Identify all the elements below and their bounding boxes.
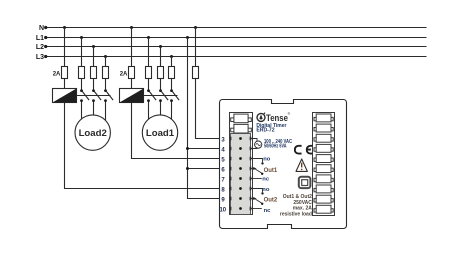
junction N / fuse9 drop <box>194 26 197 29</box>
wire N drop to fuse F1 <box>64 28 66 67</box>
wire fuse F6 to contact <box>148 79 150 90</box>
node L1 terminal dot <box>44 36 47 39</box>
wire fuse F7 to contact <box>160 79 162 90</box>
fuse F4 <box>103 67 109 79</box>
svg-text:no: no <box>263 157 271 163</box>
fuse F5 <box>129 67 135 79</box>
wire coil K2 to pin 5 <box>132 103 220 159</box>
wire L1 net vertical to pin 9 <box>188 38 220 199</box>
svg-text:Out2: Out2 <box>264 197 278 203</box>
double insulation symbol <box>299 177 311 188</box>
wire fuse F3 to contact <box>93 79 95 90</box>
warning triangle <box>296 159 307 171</box>
wire L1 net to pin 4 <box>188 148 220 150</box>
right comb tooth 3 <box>314 138 333 141</box>
strip side tabs pin6 <box>230 167 232 171</box>
strip side tabs pin10 <box>230 207 232 211</box>
junction pin6 net <box>186 167 189 170</box>
right comb tooth 6 <box>314 168 333 171</box>
wire N drop to fuse F9 <box>195 28 197 67</box>
svg-text:50/60Hz 6VA: 50/60Hz 6VA <box>264 144 287 150</box>
wire fuse F2 to contact <box>81 79 83 90</box>
right comb tooth 4 <box>314 148 333 151</box>
wire fuse F1 to coil K1 <box>64 79 66 89</box>
wire fuse F4 to contact <box>105 79 107 90</box>
right comb tooth 5 <box>314 158 333 161</box>
wire rail L1 <box>45 37 427 39</box>
screw terminal pin 5 <box>239 157 242 160</box>
strip side tabs pin5 <box>230 157 232 161</box>
wire L1 net to pin 6 <box>188 168 220 170</box>
strip side tabs pin4 <box>230 147 232 151</box>
junction L3 / contact drop group2 <box>170 55 173 58</box>
wire fuse F5 to coil K2 <box>131 79 133 89</box>
contactor coil K1 <box>53 89 77 103</box>
svg-text:N: N <box>39 25 44 32</box>
relay Out2 no contact <box>251 189 264 195</box>
fuse F3 <box>91 67 97 79</box>
wire coil K1 to pin 8 <box>65 103 220 189</box>
wire fuse F9 to pin 3 <box>196 79 220 139</box>
junction L2 / contact drop group2 <box>159 45 162 48</box>
svg-text:L3: L3 <box>36 54 44 61</box>
screw terminal pin 4 <box>239 147 242 150</box>
screw terminal pin 7 <box>239 177 242 180</box>
contact K1 pole 2 <box>92 89 101 115</box>
terminal strip body <box>231 134 251 215</box>
relay Out1 common arm <box>251 167 264 175</box>
fuse F2 <box>79 67 85 79</box>
right comb tooth 9 <box>314 199 333 202</box>
wire fuse F8 to contact <box>171 79 173 90</box>
junction L1 / contact drop group2 <box>147 36 150 39</box>
left comb tooth 1 <box>231 114 252 123</box>
strip side tabs pin7 <box>230 177 232 181</box>
fuse F7 <box>158 67 164 79</box>
junction pin4 net <box>186 147 189 150</box>
svg-text:Tense: Tense <box>266 113 288 123</box>
load M1 (Load1) <box>142 115 177 150</box>
right terminal comb frame <box>313 113 335 216</box>
contact K2 pole 1 <box>147 89 156 119</box>
wire L1 drop to fuse F2 <box>81 38 83 67</box>
relay Out1 no contact <box>251 159 264 165</box>
junction L1 / contact drop group1 <box>80 36 83 39</box>
svg-text:Out1: Out1 <box>264 168 278 174</box>
right comb tooth 10 <box>314 209 333 212</box>
right comb tooth 1 <box>314 117 333 120</box>
screw terminal pin 6 <box>239 167 242 170</box>
wire rail L2 <box>45 46 427 48</box>
wire L2 drop to fuse F7 <box>160 47 162 67</box>
AC supply symbol <box>255 141 262 148</box>
strip side tabs pin9 <box>230 197 232 201</box>
relay Out1 nc stub <box>251 178 262 180</box>
wire rail N <box>45 27 427 29</box>
junction L3 / contact drop group1 <box>104 55 107 58</box>
svg-text:nc: nc <box>262 176 270 182</box>
relay Out2 common arm <box>251 197 264 205</box>
contactor coil K2 <box>120 89 144 103</box>
fuse F8 <box>169 67 175 79</box>
wire L3 drop to fuse F8 <box>171 57 173 67</box>
strip side tabs pin8 <box>230 187 232 191</box>
svg-text:ERD-72: ERD-72 <box>256 128 274 134</box>
screw terminal pin 3 <box>239 137 242 140</box>
contact K1 pole 1 <box>80 89 89 119</box>
contact K2 pole 3 <box>170 89 179 121</box>
node L2 terminal dot <box>44 45 47 48</box>
node L3 terminal dot <box>44 55 47 58</box>
junction N / coil2 drop <box>130 26 133 29</box>
svg-text:2A: 2A <box>120 72 128 78</box>
screw terminal pin 8 <box>239 187 242 190</box>
wire L3 drop to fuse F4 <box>105 57 107 67</box>
fuse F6 <box>146 67 152 79</box>
fuse F1 <box>62 67 68 79</box>
CE mark <box>295 146 313 154</box>
screw terminal pin 9 <box>239 197 242 200</box>
wire L2 drop to fuse F3 <box>93 47 95 67</box>
contactor K2 mechanical link <box>144 95 178 97</box>
right comb tooth 7 <box>314 178 333 181</box>
svg-text:Load1: Load1 <box>146 128 175 139</box>
contactor K1 mechanical link <box>77 95 111 97</box>
svg-text:10: 10 <box>219 208 226 214</box>
contact K2 pole 2 <box>159 89 168 115</box>
timer U1 ERD-72 outline <box>220 100 347 229</box>
wire L1 drop to fuse F6 <box>148 38 150 67</box>
svg-text:resistive load: resistive load <box>280 211 312 217</box>
svg-text:2A: 2A <box>53 72 61 78</box>
logo TENSE icon <box>257 113 265 122</box>
load M2 (Load2) <box>75 115 110 150</box>
svg-text:no: no <box>262 187 270 193</box>
wire rail L3 <box>45 56 427 58</box>
left comb tooth 2 <box>231 124 252 133</box>
junction L1 / pin4 net drop <box>186 36 189 39</box>
right comb tooth 8 <box>314 188 333 191</box>
screw terminal pin 10 <box>239 207 242 210</box>
AC supply symbol wires <box>251 139 258 149</box>
strip side tabs pin3 <box>230 137 232 141</box>
fuse F9 <box>193 67 199 79</box>
left terminal comb frame <box>230 113 253 215</box>
junction L2 / contact drop group1 <box>92 45 95 48</box>
svg-text:nc: nc <box>264 208 272 214</box>
svg-text:L1: L1 <box>36 35 44 42</box>
node N terminal dot <box>44 26 47 29</box>
contact K1 pole 3 <box>104 89 113 121</box>
relay Out2 nc stub <box>251 208 262 210</box>
right comb tooth 2 <box>314 128 333 131</box>
junction N / coil1 drop <box>63 26 66 29</box>
wire N drop to fuse F5 <box>131 28 133 67</box>
svg-text:L2: L2 <box>36 44 44 51</box>
svg-text:Load2: Load2 <box>79 128 107 139</box>
